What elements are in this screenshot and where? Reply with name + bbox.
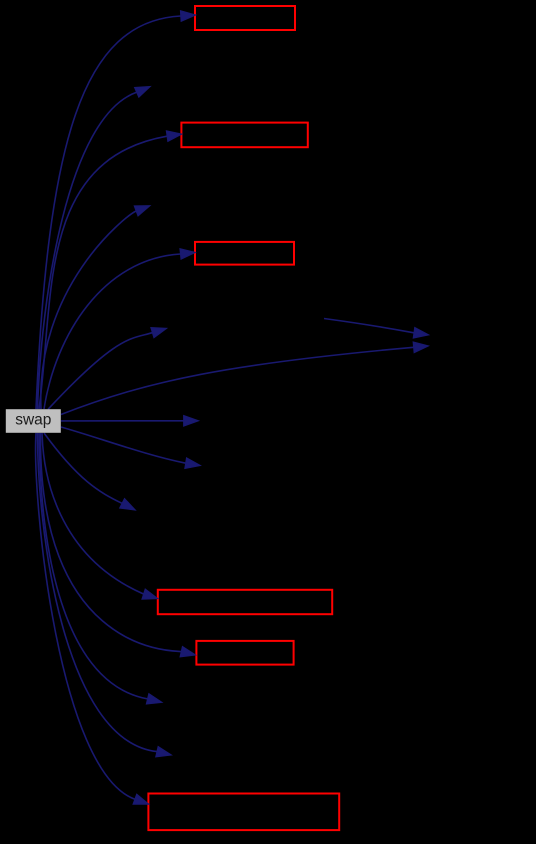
node6 box [195, 242, 294, 265]
edge swap->node9 [61, 415, 199, 426]
edge swap->node3 [38, 86, 151, 409]
edge swap->node11 [44, 433, 135, 510]
edge swap->node12 [42, 433, 158, 599]
edge swap->node5 [41, 206, 150, 409]
edge swap->node13 [40, 433, 195, 657]
edge swap->node6 [44, 249, 195, 409]
edge swap->node4 [39, 131, 182, 409]
edge swap->node2 [36, 11, 196, 409]
svg-text:swap: swap [15, 411, 51, 428]
node2 box [195, 6, 295, 30]
edge swap->node8 [61, 342, 429, 415]
edge swap->node7 [48, 328, 167, 410]
node swap [6, 409, 61, 433]
edge node7->node8 [324, 319, 429, 339]
edge swap->node15 [37, 433, 171, 757]
edge swap->node10 [61, 427, 201, 469]
node4 box [181, 123, 307, 148]
node16 box [148, 794, 339, 831]
node12 box [158, 590, 332, 614]
edge swap->node14 [39, 433, 162, 704]
edge swap->node16 [36, 433, 149, 804]
node13 box [196, 641, 293, 665]
